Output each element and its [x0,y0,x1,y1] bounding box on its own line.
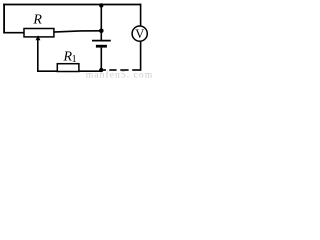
voltmeter V [132,26,147,41]
wire top horizontal [3,4,141,6]
svg-text:manfen5. com: manfen5. com [86,69,153,78]
wire dashed to voltmeter [103,69,140,71]
wire left vertical [3,4,5,33]
wire voltmeter top lead [140,4,142,27]
battery cell short thick plate [96,45,107,48]
battery branch vertical upper [100,4,102,40]
svg-text:R: R [32,13,42,28]
wire bottom horizontal (solid part) [37,70,101,72]
wire voltmeter bottom lead [140,41,142,71]
svg-text:V: V [135,27,144,41]
node top junction [99,3,103,7]
resistor R (rheostat body) [24,29,54,37]
wire left lead to rheostat [3,32,24,34]
battery cell long plate [92,40,111,42]
node middle junction [99,29,104,34]
battery branch vertical lower [100,48,102,70]
wire rheostat right lead to battery node [53,31,101,32]
node bottom junction [99,68,103,72]
svg-text:1: 1 [72,54,77,65]
rheostat wiper arrow [36,35,41,71]
resistor R1 [57,64,79,72]
